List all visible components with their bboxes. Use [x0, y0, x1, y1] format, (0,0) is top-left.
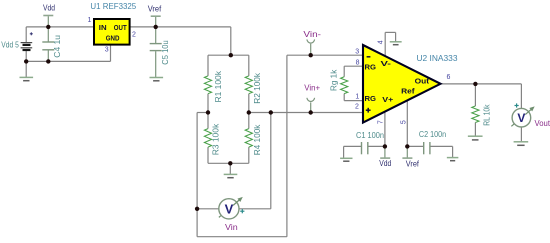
svg-text:1: 1 [355, 94, 359, 101]
svg-text:2: 2 [132, 32, 136, 39]
svg-text:OUT: OUT [114, 23, 127, 32]
svg-text:2: 2 [355, 104, 359, 111]
svg-text:GND: GND [106, 33, 120, 42]
svg-text:R4 100k: R4 100k [253, 124, 262, 156]
svg-text:V: V [517, 111, 525, 125]
svg-text:RG: RG [365, 94, 377, 103]
svg-text:V-: V- [381, 59, 392, 68]
svg-text:Vin-: Vin- [303, 30, 321, 39]
svg-text:R3 100k: R3 100k [212, 123, 221, 156]
svg-text:Vref: Vref [406, 160, 420, 169]
svg-text:6: 6 [447, 74, 451, 81]
svg-text:7: 7 [378, 120, 385, 124]
svg-text:R2 100k: R2 100k [253, 72, 262, 104]
svg-text:Vout: Vout [535, 119, 550, 128]
svg-text:U2 INA333: U2 INA333 [417, 54, 459, 63]
svg-text:C2 100n: C2 100n [419, 130, 446, 139]
svg-text:3: 3 [105, 47, 109, 54]
svg-text:R1 100k: R1 100k [214, 70, 223, 103]
svg-text:5: 5 [401, 120, 408, 124]
svg-text:4: 4 [377, 40, 384, 44]
svg-text:Vref: Vref [148, 5, 162, 14]
svg-text:Ref: Ref [401, 87, 415, 96]
svg-text:Vdd: Vdd [379, 159, 391, 168]
svg-text:V: V [225, 201, 234, 216]
svg-text:C1 100n: C1 100n [356, 131, 384, 140]
svg-text:C4 1u: C4 1u [53, 35, 62, 58]
svg-text:Out: Out [415, 76, 430, 85]
svg-text:C5 10u: C5 10u [161, 40, 170, 64]
svg-text:U1 REF3325: U1 REF3325 [90, 2, 136, 11]
svg-text:1: 1 [88, 17, 92, 24]
svg-text:Vdd 5: Vdd 5 [1, 41, 19, 50]
svg-text:3: 3 [355, 49, 359, 56]
svg-text:IN: IN [99, 23, 107, 32]
svg-text:Vin: Vin [225, 223, 238, 232]
svg-text:Vdd: Vdd [43, 4, 55, 13]
svg-text:8: 8 [356, 59, 360, 66]
svg-text:RG: RG [365, 63, 377, 72]
svg-text:V+: V+ [382, 95, 394, 104]
svg-text:RL 10k: RL 10k [482, 104, 491, 126]
svg-text:Rg 1k: Rg 1k [330, 69, 339, 91]
svg-text:Vin+: Vin+ [304, 84, 320, 93]
